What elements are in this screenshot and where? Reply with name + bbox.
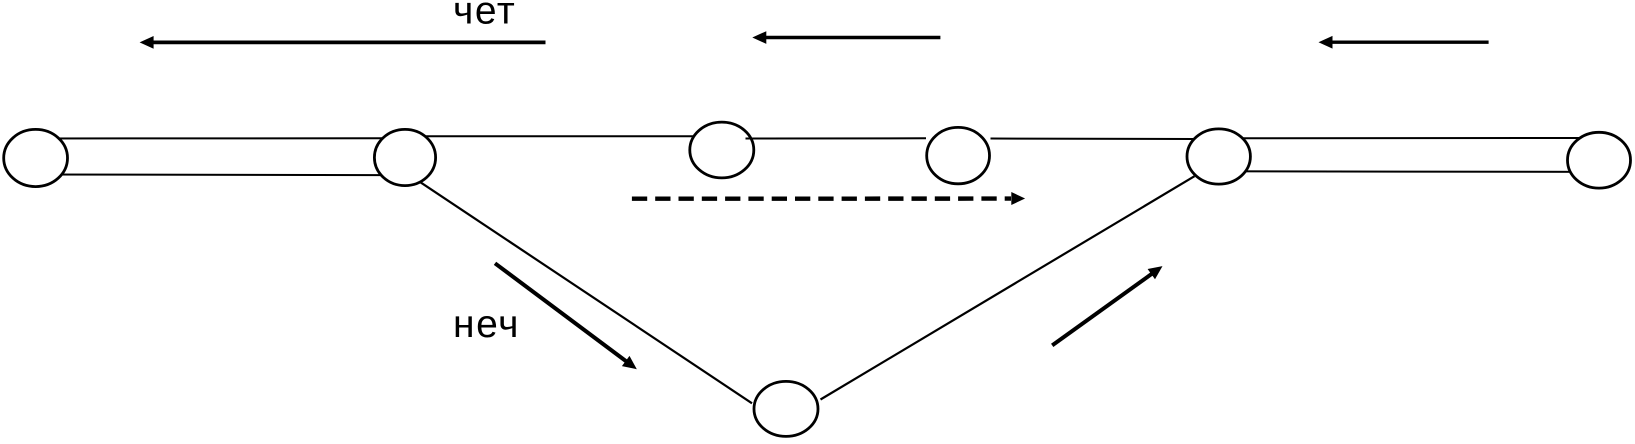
arrow top-middle (pointing left) (752, 31, 940, 44)
edge node2-node7 diagonal (419, 181, 752, 403)
svg-text:чет: чет (453, 0, 516, 32)
node 1 (4, 129, 68, 186)
node 3 (690, 122, 754, 178)
arrow lower-right diagonal (pointing up-right) (1052, 266, 1162, 345)
node 6 (1568, 132, 1631, 188)
node 4 (927, 127, 990, 183)
node 2 (374, 129, 435, 185)
edge node7-node5 diagonal (821, 176, 1195, 399)
arrow чет (top-left, pointing left) (140, 36, 546, 49)
edge pair node1-node2 bottom line (35, 174, 405, 177)
edge node4-node5 (drawn over node5 edge) (991, 138, 1195, 141)
node 7 (bottom) (754, 381, 818, 436)
node 5 (1187, 129, 1250, 184)
arrow неч diagonal (pointing down-right) (495, 263, 637, 369)
edge pair node5-node6 bottom line (1218, 170, 1599, 173)
edge pair node5-node6 top line (1218, 137, 1599, 139)
dashed arrow (middle, pointing right) (632, 192, 1025, 205)
edge node2-node3 (405, 135, 722, 137)
svg-text:неч: неч (453, 303, 520, 346)
arrow top-right (pointing left) (1319, 36, 1489, 49)
edge pair node1-node2 top line (35, 137, 405, 139)
edge node3-node4 (drawn over node3 edge) (746, 137, 927, 139)
